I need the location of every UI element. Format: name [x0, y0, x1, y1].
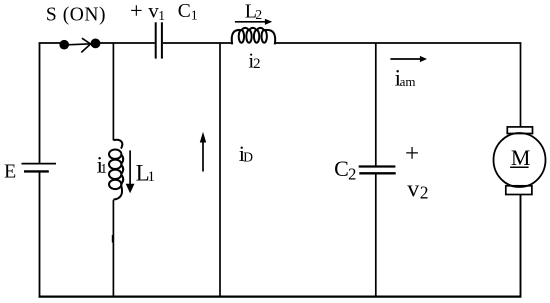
arrow: iD current direction on diode branch	[200, 132, 206, 172]
capacitor C2 plates	[359, 167, 396, 174]
wire: top rail, switch to C1	[96, 42, 155, 44]
switch S (ON): pole dot	[59, 40, 69, 50]
svg-text:1: 1	[191, 7, 198, 22]
svg-text:am: am	[400, 74, 416, 89]
switch S (ON): arrowhead barbs	[81, 38, 90, 52]
label + (v2 polarity)	[405, 141, 419, 168]
svg-text:E: E	[4, 161, 16, 183]
label i1	[97, 153, 108, 179]
motor M: body circle	[494, 133, 546, 187]
svg-text:C: C	[334, 156, 349, 181]
capacitor C1 plates	[156, 22, 162, 58]
switch S (ON): arm	[64, 44, 91, 45]
label v1	[148, 0, 165, 23]
label + (v1 polarity)	[130, 0, 143, 23]
wire: left vertical (top rail corner down to battery +)	[39, 43, 41, 164]
label i2	[248, 48, 260, 72]
wire: diode branch vertical (node A to bottom rail)	[219, 43, 221, 296]
wire: C2 branch, top rail down to plate	[375, 43, 377, 166]
arrow: i1 current direction beside L1	[126, 150, 135, 193]
label M (underlined)	[510, 145, 530, 170]
svg-text:1: 1	[100, 161, 107, 176]
label C1	[178, 1, 198, 22]
svg-text:D: D	[243, 149, 253, 164]
inductor L2 coil	[232, 28, 275, 45]
svg-text:C: C	[178, 1, 191, 22]
svg-text:2: 2	[348, 165, 356, 184]
label iam	[395, 65, 416, 90]
label C2	[334, 156, 356, 183]
svg-text:1: 1	[148, 169, 156, 185]
switch S (ON): throw dot	[91, 39, 101, 49]
wire: right vertical, top rail down to motor	[520, 43, 522, 127]
svg-text:2: 2	[420, 182, 429, 202]
arrow: iam armature current on top rail	[390, 56, 427, 62]
wire: C2 branch, plate down to bottom rail	[375, 175, 377, 297]
battery E: negative plate (short, thick)	[24, 170, 49, 172]
svg-text:v: v	[407, 176, 419, 202]
motor M: top brush block	[507, 127, 532, 134]
svg-text:S (ON): S (ON)	[46, 4, 106, 25]
svg-text:1: 1	[158, 8, 165, 23]
svg-text:M: M	[511, 145, 531, 170]
wire: L1 branch, top rail down to coil	[112, 43, 114, 140]
wire: L1 branch, coil down to bottom rail	[112, 200, 115, 296]
label S (ON)	[46, 4, 106, 25]
motor M: bottom brush block	[506, 186, 532, 195]
svg-text:+: +	[405, 141, 419, 168]
label L2	[245, 0, 262, 22]
label iD	[239, 141, 254, 166]
svg-text:+: +	[130, 0, 143, 23]
label v2	[407, 176, 428, 202]
wire: top rail, C1 to node A	[163, 42, 233, 44]
inductor L1 coil	[109, 140, 123, 200]
label E	[4, 161, 16, 183]
wire: top rail, L2 to top-right corner	[275, 42, 522, 44]
label L1	[136, 161, 155, 186]
wire: left vertical, battery - down to bottom rail	[39, 172, 41, 296]
wire: bottom rail	[39, 295, 522, 297]
arrow: i2 current direction over L2	[235, 19, 272, 25]
battery E: positive plate (long)	[22, 163, 57, 165]
wire: top rail, corner to switch pole	[39, 42, 64, 44]
svg-text:2: 2	[255, 7, 262, 22]
svg-text:2: 2	[253, 56, 260, 72]
wire: right vertical, motor down to bottom rail	[520, 195, 522, 298]
